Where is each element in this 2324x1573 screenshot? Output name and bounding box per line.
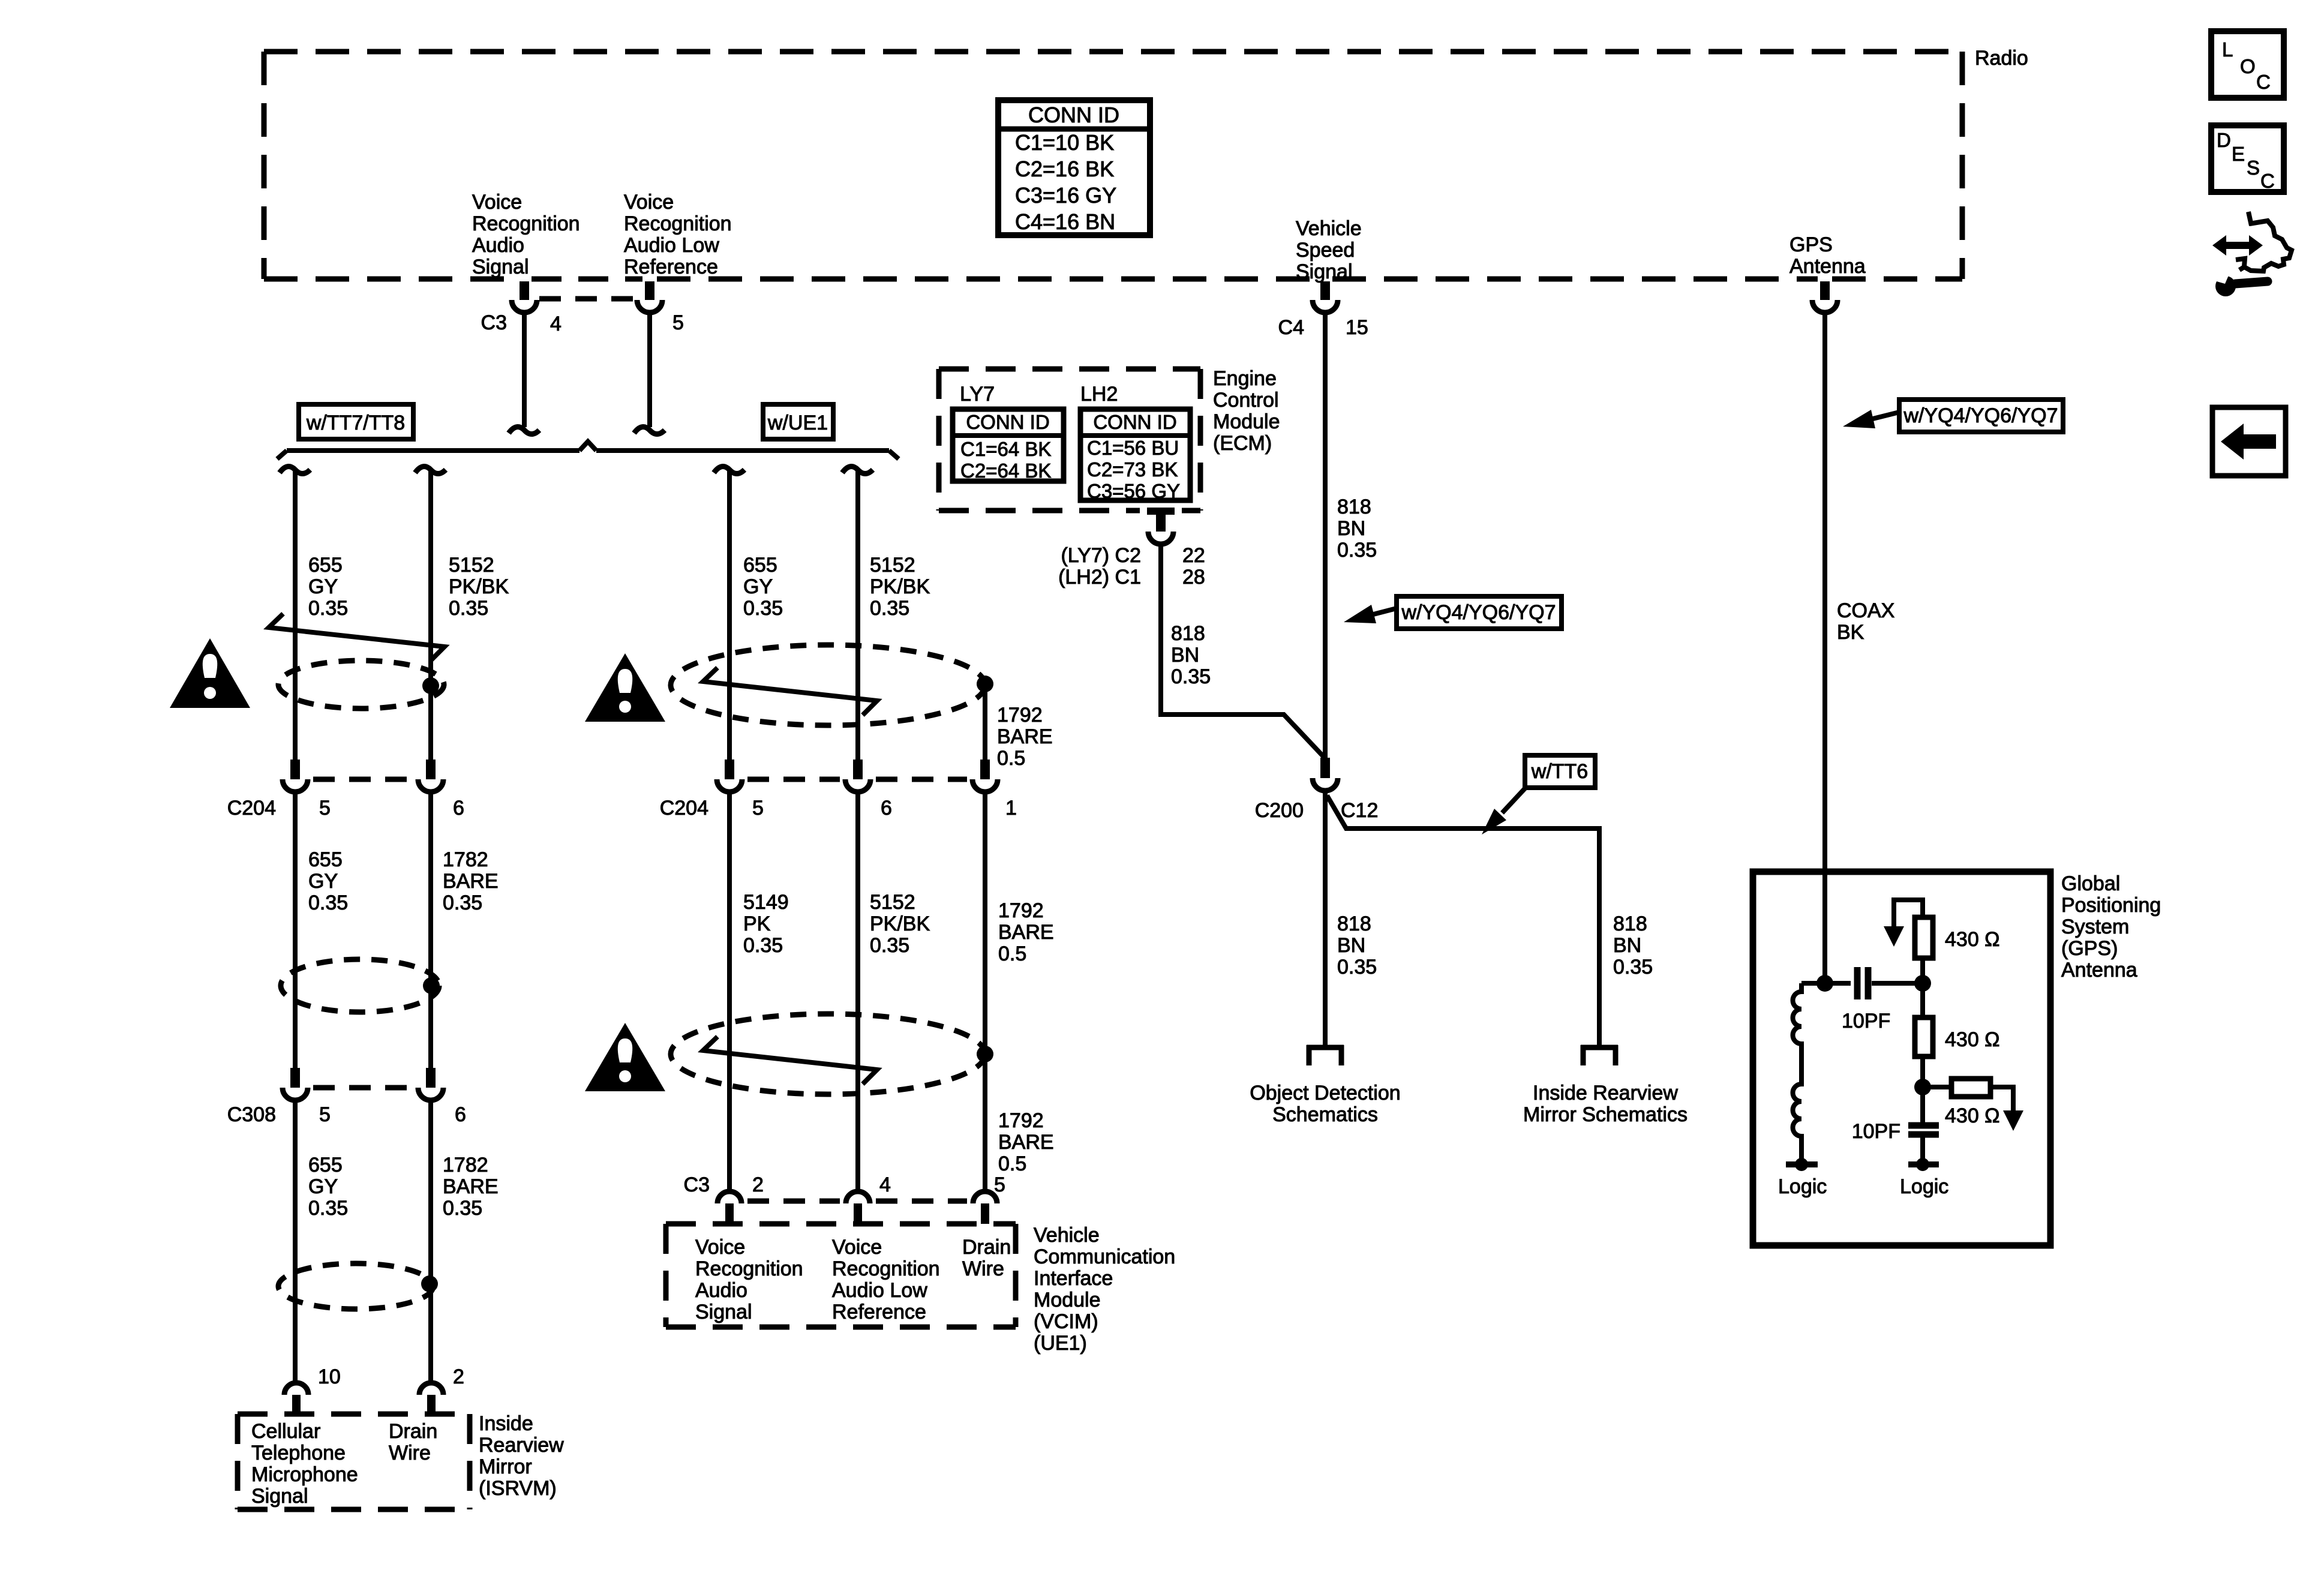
LY7 CONN ID table — [953, 409, 1064, 482]
svg-text:655: 655 — [743, 554, 777, 577]
shield ellipse left3 — [278, 1263, 433, 1309]
ISRVM connector pin 10 — [284, 1383, 308, 1414]
svg-text:Voice: Voice — [832, 1236, 882, 1259]
svg-text:BN: BN — [1337, 934, 1365, 957]
Engine Control Module ECM label — [1213, 367, 1280, 455]
shield ellipse mid2 — [671, 1014, 985, 1094]
label 1792 BARE 0.5 mid2 lower — [998, 1109, 1054, 1175]
GPS Antenna label — [1789, 233, 1866, 278]
svg-text:BARE: BARE — [998, 921, 1054, 944]
w/YQ4 arrow 2 — [1843, 410, 1899, 428]
wire 818 BN from C4 — [1323, 314, 1328, 758]
GPS antenna connector — [1812, 281, 1837, 313]
wire 655 GY mid section1 — [714, 467, 744, 760]
connector C308 pin 5 — [283, 1068, 308, 1100]
connector C204 pin 1 mid — [972, 760, 998, 792]
svg-text:0.35: 0.35 — [870, 934, 909, 957]
Logic label 1 — [1778, 1175, 1827, 1198]
wire from C3 pin 5 — [634, 314, 665, 434]
svg-text:Interface: Interface — [1034, 1267, 1113, 1290]
terminal inside rearview — [1581, 1045, 1618, 1065]
svg-text:430 Ω: 430 Ω — [1945, 928, 2000, 951]
svg-text:1782: 1782 — [443, 848, 488, 871]
svg-text:0.35: 0.35 — [1171, 665, 1211, 688]
warning triangle left — [170, 638, 250, 708]
wire 655 GY section3 left — [293, 1102, 298, 1380]
svg-text:Signal: Signal — [472, 256, 529, 278]
svg-text:BARE: BARE — [443, 870, 499, 893]
svg-text:5149: 5149 — [743, 891, 789, 914]
svg-text:0.35: 0.35 — [743, 934, 783, 957]
svg-text:C3: C3 — [684, 1173, 710, 1196]
LH2 label — [1080, 383, 1118, 406]
shield junction dot mid1 — [977, 676, 993, 692]
svg-text:28: 28 — [1182, 566, 1205, 589]
junction dot node1 — [1914, 975, 1931, 992]
svg-text:0.5: 0.5 — [998, 1152, 1026, 1175]
COAX BK label — [1837, 599, 1894, 644]
svg-text:(LH2) C1: (LH2) C1 — [1058, 566, 1141, 589]
svg-text:5: 5 — [319, 1103, 331, 1126]
GPS antenna solid box — [1753, 872, 2050, 1245]
C3 pin labels — [481, 311, 684, 335]
svg-text:Drain: Drain — [389, 1420, 437, 1443]
svg-text:CONN ID: CONN ID — [1093, 411, 1176, 433]
label 1782 BARE 0.35 left2 — [443, 848, 499, 914]
w/YQ4/YQ6/YQ7 box 1 — [1397, 596, 1562, 629]
svg-text:6: 6 — [881, 797, 892, 819]
label 1792 BARE 0.5 mid2 upper — [998, 899, 1054, 965]
svg-text:(GPS): (GPS) — [2061, 937, 2118, 960]
svg-text:PK/BK: PK/BK — [870, 912, 930, 935]
svg-text:818: 818 — [1613, 912, 1647, 935]
label 10PF upper — [1842, 1010, 1890, 1032]
label 430 ohm 3 — [1945, 1104, 2000, 1127]
svg-text:1: 1 — [1005, 797, 1017, 819]
svg-text:S: S — [2247, 157, 2260, 179]
svg-text:C4=16 BN: C4=16 BN — [1015, 209, 1115, 234]
svg-text:C1=64 BK: C1=64 BK — [960, 438, 1051, 460]
svg-text:2: 2 — [752, 1173, 764, 1196]
ISRVM dashed box — [238, 1414, 470, 1509]
svg-text:0.35: 0.35 — [1337, 539, 1377, 562]
svg-text:Telephone: Telephone — [251, 1442, 346, 1464]
svg-text:(ISRVM): (ISRVM) — [479, 1477, 557, 1500]
svg-text:Wire: Wire — [389, 1442, 431, 1464]
svg-text:Mirror: Mirror — [479, 1455, 532, 1478]
svg-text:(LY7) C2: (LY7) C2 — [1061, 544, 1141, 567]
svg-text:PK/BK: PK/BK — [870, 575, 930, 598]
label 818 BN 0.35 C4 — [1337, 496, 1377, 562]
svg-text:10PF: 10PF — [1852, 1120, 1900, 1143]
w/TT6 box — [1525, 755, 1595, 788]
Voice Recognition Audio Signal VCIM label — [695, 1236, 803, 1323]
svg-text:E: E — [2232, 143, 2245, 165]
connector C204 pin 5 left — [283, 760, 308, 792]
svg-text:w/UE1: w/UE1 — [767, 412, 828, 434]
junction dot node2 — [1914, 1079, 1931, 1095]
svg-text:Antenna: Antenna — [2061, 959, 2137, 981]
wire 1792 BARE mid section2 — [983, 794, 987, 1190]
svg-text:C2=16 BK: C2=16 BK — [1015, 157, 1114, 181]
svg-text:C3: C3 — [481, 311, 507, 334]
svg-text:5: 5 — [994, 1173, 1005, 1196]
svg-text:Voice: Voice — [624, 191, 674, 214]
svg-text:5152: 5152 — [449, 554, 494, 577]
svg-text:4: 4 — [550, 313, 562, 335]
svg-text:Audio Low: Audio Low — [832, 1279, 927, 1302]
C204 left labels — [227, 797, 464, 819]
svg-text:C1=56 BU: C1=56 BU — [1087, 437, 1179, 459]
LY7 label — [960, 383, 995, 406]
dashed link C3 VCIM — [747, 1199, 967, 1204]
svg-text:0.35: 0.35 — [443, 1197, 482, 1220]
Logic label 2 — [1900, 1175, 1948, 1198]
wire 1782 BARE section3 left — [428, 1102, 433, 1380]
svg-text:10: 10 — [318, 1365, 341, 1388]
svg-text:655: 655 — [308, 1154, 343, 1176]
w/YQ4 arrow 1 — [1344, 605, 1397, 623]
svg-text:C204: C204 — [227, 797, 276, 819]
svg-text:L: L — [2222, 38, 2233, 61]
svg-text:430 Ω: 430 Ω — [1945, 1028, 2000, 1051]
svg-text:CONN ID: CONN ID — [966, 411, 1049, 433]
svg-text:5152: 5152 — [870, 554, 915, 577]
svg-text:Module: Module — [1213, 410, 1280, 433]
twisted pair marker mid1 — [703, 668, 877, 715]
svg-text:Voice: Voice — [695, 1236, 745, 1259]
svg-text:Logic: Logic — [1900, 1175, 1948, 1198]
VCIM title label — [1034, 1224, 1175, 1355]
svg-text:22: 22 — [1182, 544, 1205, 567]
svg-text:818: 818 — [1337, 496, 1371, 518]
svg-text:Speed: Speed — [1296, 239, 1355, 262]
svg-text:2: 2 — [453, 1365, 464, 1388]
svg-text:System: System — [2061, 915, 2129, 938]
C200 C12 labels — [1255, 799, 1379, 822]
svg-text:C4: C4 — [1278, 316, 1304, 339]
svg-text:Control: Control — [1213, 389, 1279, 412]
svg-text:Audio: Audio — [472, 234, 524, 257]
svg-text:0.35: 0.35 — [308, 597, 348, 620]
label 1782 BARE 0.35 left3 — [443, 1154, 499, 1220]
wire 655 GY section1 left — [280, 467, 310, 760]
ISRVM pin labels — [318, 1365, 464, 1388]
connector C204 pin 6 left — [418, 760, 443, 792]
svg-text:Rearview: Rearview — [479, 1434, 564, 1457]
w/TT6 arrow — [1482, 786, 1527, 834]
svg-text:C204: C204 — [660, 797, 708, 819]
Voice Recognition Audio Low Reference label — [624, 191, 732, 278]
label 818 BN 0.35 right lower — [1613, 912, 1653, 978]
VCIM connector C3 pin 5 — [973, 1191, 997, 1224]
wire 655 GY section2 left — [293, 794, 298, 1068]
shield ellipse mid1 — [671, 645, 985, 725]
COAX BK wire — [1822, 314, 1827, 983]
svg-text:D: D — [2217, 129, 2231, 151]
LH2 CONN ID table — [1080, 409, 1190, 502]
label 655 GY 0.35 left1 — [308, 554, 348, 620]
w/YQ4/YQ6/YQ7 box 2 — [1899, 400, 2063, 432]
svg-text:Inside Rearview: Inside Rearview — [1533, 1082, 1678, 1104]
svg-text:0.5: 0.5 — [997, 747, 1025, 770]
svg-text:C: C — [2256, 71, 2271, 93]
svg-text:6: 6 — [453, 797, 464, 819]
w/TT7/TT8 option box — [299, 404, 413, 439]
Vehicle Speed Signal label — [1296, 217, 1362, 283]
svg-text:Vehicle: Vehicle — [1034, 1224, 1100, 1247]
connector C204 pin 5 mid — [717, 760, 742, 792]
svg-text:0.35: 0.35 — [870, 597, 909, 620]
svg-text:6: 6 — [455, 1103, 466, 1126]
svg-text:GY: GY — [308, 870, 338, 893]
label 430 ohm 1 — [1945, 928, 2000, 951]
svg-text:Drain: Drain — [962, 1236, 1011, 1259]
svg-text:(UE1): (UE1) — [1034, 1332, 1087, 1355]
svg-text:655: 655 — [308, 848, 343, 871]
svg-text:818: 818 — [1171, 622, 1205, 645]
svg-text:1792: 1792 — [998, 899, 1044, 922]
svg-text:C200: C200 — [1255, 799, 1304, 822]
w/UE1 option box — [763, 404, 833, 439]
svg-text:Audio Low: Audio Low — [624, 234, 719, 257]
connector C204 pin 6 mid — [845, 760, 870, 792]
svg-text:Inside: Inside — [479, 1412, 533, 1435]
wire 818 BN from ECM — [1161, 546, 1324, 757]
ECM connector — [1147, 508, 1175, 544]
svg-text:CONN ID: CONN ID — [1028, 103, 1119, 127]
capacitor 10PF lower — [1908, 1087, 1939, 1161]
svg-text:15: 15 — [1346, 316, 1368, 339]
svg-text:Positioning: Positioning — [2061, 894, 2161, 917]
wire 5152 PK/BK mid section2 — [855, 794, 860, 1190]
svg-text:BARE: BARE — [997, 725, 1053, 748]
svg-text:1792: 1792 — [997, 704, 1043, 727]
connector C3 pin 4 — [512, 281, 537, 313]
svg-text:430 Ω: 430 Ω — [1945, 1104, 2000, 1127]
svg-text:5: 5 — [672, 311, 684, 334]
label 5152 PK/BK 0.35 mid1 — [870, 554, 930, 620]
C3 VCIM labels — [684, 1173, 1005, 1196]
svg-text:5: 5 — [319, 797, 331, 819]
Cellular Telephone Microphone Signal label — [251, 1420, 358, 1508]
wire 818 BN to inside rearview — [1327, 795, 1599, 1045]
label 818 BN 0.35 left lower — [1337, 912, 1377, 978]
label 655 GY 0.35 mid1 — [743, 554, 783, 620]
warning triangle mid1 — [585, 653, 665, 722]
Radio module dashed box — [264, 52, 1962, 279]
svg-text:Reference: Reference — [832, 1301, 926, 1323]
Global Positioning System GPS Antenna label — [2061, 872, 2161, 981]
svg-text:BN: BN — [1337, 517, 1365, 540]
svg-text:BN: BN — [1171, 644, 1199, 667]
Radio label — [1975, 47, 2028, 70]
svg-text:0.35: 0.35 — [1613, 956, 1653, 978]
svg-text:LY7: LY7 — [960, 383, 995, 406]
svg-text:Signal: Signal — [251, 1485, 308, 1508]
svg-text:1782: 1782 — [443, 1154, 488, 1176]
svg-text:Recognition: Recognition — [624, 212, 732, 235]
label 1792 BARE 0.5 mid1 — [997, 704, 1053, 770]
svg-text:PK: PK — [743, 912, 771, 935]
Drain Wire VCIM label — [962, 1236, 1011, 1280]
Voice Recognition Audio Signal label — [472, 191, 580, 278]
label 5149 PK 0.35 — [743, 891, 789, 957]
svg-text:C3=16 GY: C3=16 GY — [1015, 183, 1116, 208]
wire 1782 BARE section2 left — [428, 794, 433, 1068]
svg-text:GY: GY — [308, 575, 338, 598]
ground logic 2 — [1908, 1158, 1939, 1171]
inductor L1 — [1793, 983, 1825, 1161]
svg-text:5: 5 — [752, 797, 764, 819]
svg-text:Recognition: Recognition — [472, 212, 580, 235]
svg-text:0.35: 0.35 — [308, 1197, 348, 1220]
svg-text:COAX: COAX — [1837, 599, 1894, 622]
svg-text:PK/BK: PK/BK — [449, 575, 509, 598]
C308 labels — [227, 1103, 466, 1126]
Inside Rearview Mirror ISRVM label — [479, 1412, 564, 1500]
svg-text:w/TT7/TT8: w/TT7/TT8 — [306, 412, 405, 434]
C4 pin labels — [1278, 316, 1368, 339]
svg-text:C3=56 GY: C3=56 GY — [1087, 480, 1180, 502]
svg-text:w/YQ4/YQ6/YQ7: w/YQ4/YQ6/YQ7 — [1401, 601, 1556, 624]
wire 5149 PK mid section2 — [727, 794, 732, 1190]
svg-text:5152: 5152 — [870, 891, 915, 914]
svg-text:C: C — [2260, 170, 2275, 192]
svg-text:0.35: 0.35 — [308, 891, 348, 914]
svg-text:C2=64 BK: C2=64 BK — [960, 460, 1051, 482]
svg-text:C1=10 BK: C1=10 BK — [1015, 130, 1114, 155]
label 655 GY 0.35 left3 — [308, 1154, 348, 1220]
svg-text:GY: GY — [743, 575, 773, 598]
svg-text:818: 818 — [1337, 912, 1371, 935]
Drain Wire label ISRVM — [389, 1420, 437, 1464]
svg-text:Signal: Signal — [1296, 260, 1353, 283]
svg-text:GPS: GPS — [1789, 233, 1833, 256]
CONN ID table (Radio) — [998, 100, 1150, 235]
dashed link C3 pins — [539, 296, 635, 302]
VCIM connector C3 pin 2 — [717, 1191, 741, 1224]
resistor R3 430 — [1923, 1079, 2023, 1131]
svg-text:Recognition: Recognition — [695, 1257, 803, 1280]
twisted pair marker mid2 — [703, 1037, 877, 1084]
svg-text:BARE: BARE — [443, 1175, 499, 1198]
Voice Recognition Audio Low Reference VCIM label — [832, 1236, 940, 1323]
DESC legend box — [2211, 125, 2284, 192]
svg-text:0.35: 0.35 — [1337, 956, 1377, 978]
left arrow icon box — [2212, 407, 2286, 476]
svg-text:Logic: Logic — [1778, 1175, 1827, 1198]
shield junction dot left3 — [421, 1275, 438, 1292]
svg-text:Vehicle: Vehicle — [1296, 217, 1362, 240]
svg-text:BARE: BARE — [998, 1131, 1054, 1154]
junction dot coax — [1816, 975, 1833, 992]
svg-text:Cellular: Cellular — [251, 1420, 320, 1443]
svg-text:0.5: 0.5 — [998, 942, 1026, 965]
svg-text:(VCIM): (VCIM) — [1034, 1310, 1098, 1333]
C204 mid labels — [660, 797, 1017, 819]
svg-text:C308: C308 — [227, 1103, 276, 1126]
ground logic 1 — [1786, 1158, 1818, 1171]
svg-text:O: O — [2240, 55, 2256, 77]
ISRVM connector pin 2 — [419, 1383, 443, 1414]
svg-text:Radio: Radio — [1975, 47, 2028, 70]
LOC legend box — [2211, 31, 2284, 98]
wire from C3 pin 4 — [509, 314, 539, 434]
shield junction dot left1 — [422, 677, 439, 694]
svg-text:w/YQ4/YQ6/YQ7: w/YQ4/YQ6/YQ7 — [1903, 404, 2058, 427]
svg-text:w/TT6: w/TT6 — [1531, 760, 1588, 783]
wire 1792 BARE mid upper — [983, 684, 987, 760]
svg-text:Module: Module — [1034, 1289, 1101, 1311]
svg-text:0.35: 0.35 — [443, 891, 482, 914]
svg-text:Voice: Voice — [472, 191, 522, 214]
terminal object detection — [1307, 1045, 1344, 1065]
warning triangle mid2 — [585, 1023, 665, 1091]
Inside Rearview Mirror Schematics label — [1523, 1082, 1688, 1126]
label 5152 PK/BK 0.35 mid2 — [870, 891, 930, 957]
harness brace — [277, 442, 899, 459]
twisted pair marker left1 — [269, 614, 445, 661]
ECM connector labels — [1058, 544, 1205, 589]
svg-text:GY: GY — [308, 1175, 338, 1198]
svg-text:C12: C12 — [1341, 799, 1378, 822]
svg-text:655: 655 — [308, 554, 343, 577]
dashed link C308 — [313, 1085, 413, 1091]
svg-text:Audio: Audio — [695, 1279, 747, 1302]
resistor R2 430 — [1915, 983, 1933, 1087]
shield junction dot left2 — [423, 977, 440, 994]
resistor R1 430 — [1884, 900, 1933, 983]
svg-text:Antenna: Antenna — [1789, 255, 1866, 278]
svg-text:Wire: Wire — [962, 1257, 1004, 1280]
svg-text:Signal: Signal — [695, 1301, 752, 1323]
svg-text:Recognition: Recognition — [832, 1257, 940, 1280]
Object Detection Schematics label — [1250, 1082, 1400, 1126]
label 655 GY 0.35 left2 — [308, 848, 348, 914]
svg-text:0.35: 0.35 — [743, 597, 783, 620]
svg-text:10PF: 10PF — [1842, 1010, 1890, 1032]
svg-text:BK: BK — [1837, 621, 1864, 644]
svg-text:Microphone: Microphone — [251, 1463, 358, 1486]
label 818 BN 0.35 ECM — [1171, 622, 1211, 688]
shield ellipse left2 — [281, 959, 439, 1012]
svg-text:Object Detection: Object Detection — [1250, 1082, 1400, 1104]
svg-text:BN: BN — [1613, 934, 1641, 957]
dashed link C204 mid — [747, 777, 967, 782]
connector C4 pin 15 — [1313, 281, 1338, 313]
wire 5152 PK/BK section1 left — [415, 467, 446, 760]
label 430 ohm 2 — [1945, 1028, 2000, 1051]
capacitor 10PF upper — [1825, 967, 1923, 999]
svg-text:LH2: LH2 — [1080, 383, 1118, 406]
ECM dashed box — [939, 369, 1200, 511]
connector C200 C12 — [1313, 758, 1338, 791]
wire 818 BN to object detection — [1323, 792, 1328, 1045]
label 10PF lower — [1852, 1120, 1900, 1143]
dashed link C204 left — [313, 777, 413, 782]
VCIM connector C3 pin 4 — [846, 1191, 870, 1224]
svg-text:Global: Global — [2061, 872, 2120, 895]
svg-text:Mirror Schematics: Mirror Schematics — [1523, 1103, 1688, 1126]
svg-text:1792: 1792 — [998, 1109, 1044, 1132]
svg-text:Engine: Engine — [1213, 367, 1277, 390]
svg-text:Communication: Communication — [1034, 1245, 1175, 1268]
connector C308 pin 6 — [418, 1068, 443, 1100]
shield ellipse left1 — [278, 661, 444, 709]
svg-text:Schematics: Schematics — [1272, 1103, 1378, 1126]
svg-text:0.35: 0.35 — [449, 597, 488, 620]
